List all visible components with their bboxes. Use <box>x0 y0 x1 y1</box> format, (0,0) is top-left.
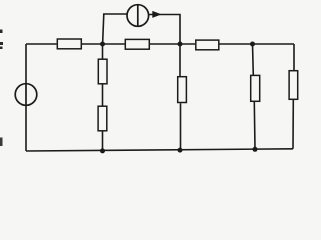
scan artifact marks at left edge <box>0 30 3 147</box>
resistor R7 (branch x=253) <box>251 75 260 101</box>
node C (top rail x=252) <box>250 42 255 47</box>
node E (bottom rail x=180) <box>178 148 183 153</box>
resistor R1 <box>57 39 81 49</box>
node F (bottom rail x=255) <box>253 147 258 152</box>
wire current-source loop right <box>149 15 180 45</box>
resistor R5 (lower, branch x=102) <box>98 106 107 131</box>
resistor R6 (branch x=180) <box>178 77 187 103</box>
wire bottom rail <box>26 149 293 151</box>
resistor R8 (branch x=293) <box>289 71 298 100</box>
arrow of current source <box>152 11 161 18</box>
wire branch x=180 <box>179 44 182 150</box>
resistor R4 (upper, branch x=102) <box>98 59 107 84</box>
voltage source V1 <box>15 84 37 106</box>
resistor R2 <box>125 39 149 49</box>
current source I1 <box>127 5 149 27</box>
wire middle branch x=102 <box>102 44 104 151</box>
node A (top rail x=102) <box>100 42 105 47</box>
node D (bottom rail x=102) <box>100 148 105 153</box>
wire branch x=293 (right edge) <box>293 44 294 149</box>
wire left branch <box>25 44 27 151</box>
resistor R3 <box>196 40 219 50</box>
wire current-source loop left <box>103 14 127 44</box>
wire top rail <box>26 43 294 45</box>
node B (top rail x=180) <box>178 42 183 47</box>
wire branch x=253 <box>253 44 256 149</box>
